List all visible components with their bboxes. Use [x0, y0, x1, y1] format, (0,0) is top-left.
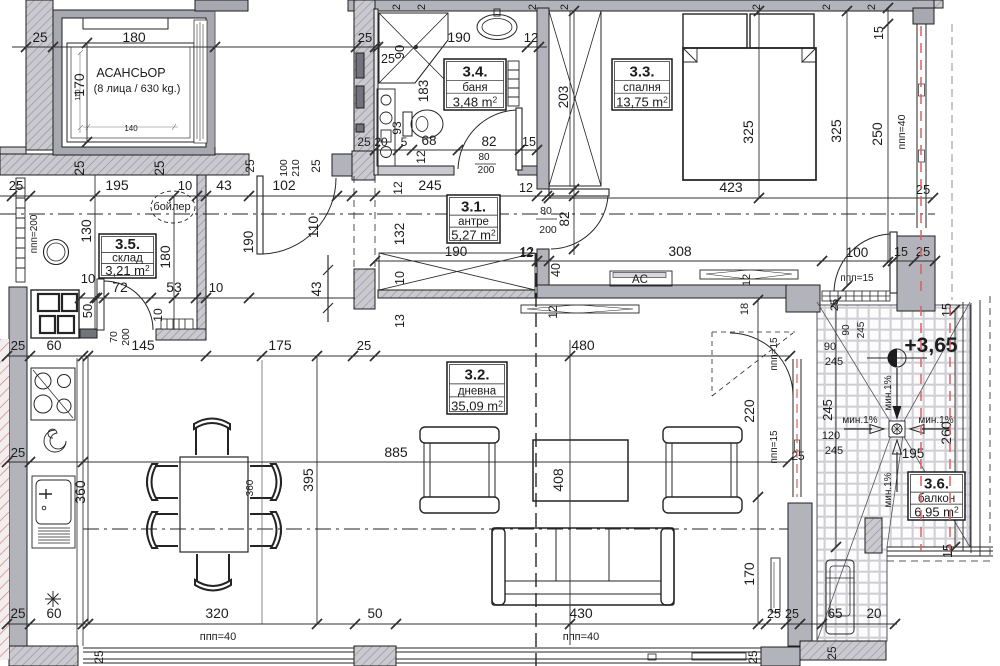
bathroom shower — [379, 13, 448, 83]
svg-text:12: 12 — [414, 150, 428, 164]
svg-text:25: 25 — [92, 650, 106, 664]
svg-text:12: 12 — [741, 274, 753, 286]
svg-text:110: 110 — [75, 89, 82, 100]
svg-text:5,27 m2: 5,27 m2 — [451, 228, 496, 243]
living-balcony window — [793, 359, 801, 497]
svg-text:25: 25 — [791, 449, 805, 463]
svg-text:3.1.: 3.1. — [461, 198, 486, 215]
svg-text:25: 25 — [357, 338, 371, 353]
svg-text:25: 25 — [767, 607, 781, 621]
svg-text:100: 100 — [278, 159, 290, 177]
svg-text:25: 25 — [72, 160, 87, 175]
dim line 220-170 — [753, 295, 763, 629]
svg-text:2: 2 — [866, 4, 878, 10]
bedroom window right — [917, 24, 926, 228]
svg-text:15: 15 — [894, 245, 908, 259]
living low cabinet — [521, 305, 639, 313]
balcony tiled floor — [817, 305, 970, 641]
svg-text:25: 25 — [10, 606, 25, 621]
dim line storage 130 — [90, 175, 100, 330]
antre thin parapet hatched — [378, 290, 535, 298]
bed mattress — [683, 48, 816, 180]
elevator door louver — [194, 20, 207, 143]
overhang dashed line right — [951, 24, 953, 300]
bottom window right — [396, 648, 761, 663]
svg-text:10: 10 — [151, 308, 165, 322]
room label 3.2 дневна — [447, 362, 507, 414]
bathroom-bedroom divider wall upper — [537, 8, 549, 189]
svg-text:AC: AC — [632, 274, 648, 286]
kitchen asterisk — [45, 591, 61, 607]
svg-text:25: 25 — [11, 338, 25, 353]
balcony top pillar — [897, 236, 935, 311]
svg-text:203: 203 — [556, 86, 571, 109]
svg-text:395: 395 — [300, 468, 316, 492]
svg-text:140: 140 — [124, 124, 138, 133]
section line vertical — [535, 253, 537, 666]
dim chain bathroom top — [373, 42, 547, 52]
room label 3.4 баня — [444, 59, 506, 110]
svg-text:245: 245 — [820, 399, 835, 421]
svg-text:2: 2 — [559, 4, 571, 10]
svg-text:90: 90 — [824, 341, 836, 353]
svg-text:20: 20 — [374, 135, 388, 149]
bedroom bottom wall band — [537, 285, 786, 298]
balcony railing right — [887, 300, 993, 556]
svg-text:(8 лица / 630 kg.): (8 лица / 630 kg.) — [94, 83, 181, 95]
dim chain antre — [370, 256, 940, 266]
balcony door threshold — [822, 291, 890, 301]
bedroom wardrobe — [549, 11, 601, 186]
kitchen extractor spiral — [44, 429, 66, 452]
svg-text:430: 430 — [569, 605, 593, 621]
svg-text:12: 12 — [546, 305, 560, 319]
dining chair top — [194, 419, 230, 456]
boiler dashed circle — [151, 191, 195, 223]
shaft dark block 3 — [356, 124, 364, 132]
svg-text:43: 43 — [309, 281, 324, 296]
storage bottom stub hatched — [156, 329, 206, 340]
dim line elevator 170 — [82, 38, 92, 147]
balcony door dashed projection — [712, 332, 795, 396]
svg-text:423: 423 — [719, 179, 743, 195]
bathroom bottom-left strip — [378, 166, 454, 175]
corridor landing line — [214, 11, 216, 147]
svg-text:320: 320 — [205, 605, 229, 621]
bedroom low shelf — [700, 270, 798, 279]
dining chair bottom — [195, 554, 231, 591]
svg-text:13,75 m2: 13,75 m2 — [616, 94, 668, 109]
svg-text:25: 25 — [916, 182, 930, 197]
svg-text:спалня: спалня — [623, 82, 661, 94]
svg-text:50: 50 — [80, 304, 95, 318]
elevator cabin — [67, 43, 194, 142]
svg-text:132: 132 — [392, 223, 407, 246]
balcony AC hatched block — [865, 518, 882, 553]
svg-text:170: 170 — [741, 562, 757, 586]
svg-text:245: 245 — [418, 177, 442, 193]
svg-text:5: 5 — [401, 135, 408, 149]
svg-text:25: 25 — [32, 30, 47, 45]
svg-text:360: 360 — [245, 479, 256, 496]
svg-text:65: 65 — [827, 606, 842, 621]
dim chain living top — [2, 351, 795, 361]
dim line storage 180 — [169, 191, 179, 330]
bedroom door arc — [551, 196, 608, 249]
svg-text:885: 885 — [384, 444, 408, 460]
red dashed line balcony 1 — [920, 306, 922, 552]
svg-text:110: 110 — [305, 216, 321, 239]
AC wall pillar — [788, 503, 812, 646]
bedroom door leaf — [549, 189, 609, 196]
wall left outer hatched — [26, 0, 53, 150]
red dashed line window right — [920, 26, 922, 296]
bathroom door-side wall block — [518, 166, 537, 175]
svg-text:40: 40 — [549, 263, 563, 277]
dim chain storage top — [0, 191, 552, 201]
centerline living horizontal — [83, 528, 788, 530]
living sofa — [492, 528, 674, 605]
left kitchen wall — [9, 287, 27, 646]
balcony door arc — [834, 234, 890, 292]
svg-text:200: 200 — [120, 328, 132, 346]
svg-text:2: 2 — [416, 4, 428, 10]
room label 3.6 балкон — [908, 472, 965, 520]
svg-text:15: 15 — [940, 303, 954, 317]
top band corridor piece — [195, 0, 248, 11]
level symbol +3,65 — [867, 349, 927, 367]
svg-text:245: 245 — [825, 445, 843, 457]
dining chair left1 — [147, 464, 178, 500]
dim chain storage door — [75, 293, 355, 303]
svg-text:2: 2 — [821, 4, 833, 10]
dining chair right1 — [250, 464, 281, 500]
svg-text:12: 12 — [519, 181, 533, 195]
left red hatched strip — [0, 339, 9, 660]
svg-text:180: 180 — [122, 29, 146, 45]
svg-text:70: 70 — [108, 331, 120, 343]
bottom window left — [83, 648, 354, 663]
svg-text:25: 25 — [309, 159, 323, 173]
svg-text:13: 13 — [393, 314, 407, 328]
svg-text:82: 82 — [557, 211, 572, 226]
svg-text:325: 325 — [740, 120, 756, 144]
svg-text:2: 2 — [391, 4, 403, 10]
svg-text:408: 408 — [550, 468, 566, 492]
svg-text:100: 100 — [846, 245, 869, 260]
svg-text:3.5.: 3.5. — [115, 236, 140, 253]
svg-text:360: 360 — [72, 480, 88, 504]
svg-text:мин.1%: мин.1% — [842, 415, 877, 426]
storage door arc — [104, 281, 153, 330]
antre opening dashed lines — [354, 176, 375, 267]
svg-text:25: 25 — [9, 178, 23, 193]
svg-text:ппп=15: ппп=15 — [769, 430, 780, 464]
corridor door-side block — [332, 154, 352, 176]
svg-text:25: 25 — [746, 650, 760, 664]
bathroom sink — [477, 9, 517, 40]
balcony door leaf — [890, 232, 897, 293]
svg-text:80: 80 — [478, 152, 490, 163]
svg-text:308: 308 — [668, 243, 692, 259]
bathroom toilet — [403, 110, 443, 138]
svg-text:245: 245 — [856, 321, 867, 338]
svg-text:ппп=200: ппп=200 — [29, 214, 40, 253]
svg-text:25: 25 — [11, 445, 25, 460]
wall left corner strip — [0, 147, 26, 154]
dim line 203-82 — [569, 6, 579, 255]
top-right hatched bit — [934, 0, 943, 8]
svg-text:10: 10 — [178, 178, 192, 193]
entrance door arc — [263, 178, 336, 254]
svg-text:15: 15 — [941, 544, 955, 558]
dim line bedroom 325 — [842, 6, 852, 291]
svg-text:60: 60 — [46, 338, 61, 353]
svg-text:25: 25 — [825, 646, 839, 660]
svg-text:325: 325 — [828, 119, 844, 143]
dim chain bottom — [2, 619, 900, 629]
svg-text:3,21 m2: 3,21 m2 — [105, 263, 150, 278]
bathroom washing column — [377, 89, 395, 166]
svg-text:ппп=40: ппп=40 — [896, 114, 908, 149]
svg-text:10: 10 — [393, 271, 407, 285]
elevator inner dim lines — [78, 50, 178, 133]
kitchen fridge cabinet block — [31, 290, 79, 338]
svg-text:3.3.: 3.3. — [629, 63, 654, 80]
svg-text:195: 195 — [105, 177, 129, 193]
entrance pillar hatched — [352, 151, 375, 180]
svg-text:15: 15 — [522, 135, 536, 149]
svg-text:15: 15 — [872, 26, 886, 40]
balcony AC outdoor unit — [826, 560, 854, 634]
balcony drain — [889, 421, 905, 437]
balcony slope arrow right — [922, 428, 950, 430]
left window french — [16, 178, 25, 282]
svg-text:ппп=40: ппп=40 — [200, 631, 237, 643]
dim chain bed width — [544, 193, 938, 203]
antre pillar hatched — [354, 269, 375, 309]
dim line 395 — [312, 351, 322, 629]
bathroom-bedroom divider wall lower — [537, 249, 549, 298]
svg-text:мин.1%: мин.1% — [883, 472, 894, 507]
bathroom towel rail — [508, 61, 519, 106]
svg-text:90: 90 — [392, 45, 407, 59]
svg-text:183: 183 — [416, 80, 431, 103]
svg-text:93: 93 — [390, 121, 404, 135]
svg-text:3.2.: 3.2. — [464, 367, 489, 384]
svg-text:25: 25 — [357, 135, 371, 149]
svg-text:200: 200 — [539, 224, 557, 236]
svg-text:102: 102 — [272, 177, 296, 193]
balcony bottom wall hatched — [800, 641, 886, 660]
svg-text:145: 145 — [131, 337, 155, 353]
svg-text:80: 80 — [540, 205, 552, 217]
svg-text:25: 25 — [243, 159, 257, 173]
svg-text:90: 90 — [841, 324, 852, 336]
svg-text:25: 25 — [916, 244, 930, 259]
living coffee table — [533, 440, 628, 501]
storage door leaf — [97, 279, 104, 330]
elevator counterweight — [83, 18, 168, 29]
svg-text:баня: баня — [462, 82, 487, 94]
svg-text:25: 25 — [152, 160, 167, 175]
bed pillows — [683, 14, 747, 48]
svg-text:АСАНСЬОР: АСАНСЬОР — [96, 66, 165, 80]
shaft wall vertical hatched — [354, 0, 375, 151]
storage shoe shelf — [161, 319, 193, 329]
top band main — [348, 0, 934, 11]
svg-text:210: 210 — [290, 159, 302, 177]
balcony slope arrow down — [896, 368, 898, 408]
svg-text:10: 10 — [209, 280, 223, 295]
svg-text:190: 190 — [241, 231, 256, 254]
entrance door leaf — [257, 176, 263, 254]
kitchen sink unit — [32, 476, 75, 548]
svg-text:3.4.: 3.4. — [462, 63, 487, 80]
storage round sink — [44, 240, 69, 265]
svg-text:бойлер: бойлер — [153, 201, 190, 213]
svg-text:43: 43 — [216, 177, 232, 193]
dining dim connector line — [261, 360, 263, 624]
living balcony window arc — [730, 333, 793, 396]
dim chain balcony bottom — [795, 619, 900, 629]
svg-text:175: 175 — [268, 337, 292, 353]
indoor AC unit — [771, 558, 780, 612]
top-right pillar — [913, 8, 934, 24]
svg-text:25: 25 — [785, 607, 799, 621]
svg-text:ппп=15: ппп=15 — [769, 337, 780, 371]
svg-text:68: 68 — [421, 133, 436, 148]
antre wardrobe — [379, 253, 535, 290]
red dashed line living window — [796, 359, 798, 497]
dim line 43 pillar — [323, 255, 333, 322]
svg-text:ппп=40: ппп=40 — [563, 631, 600, 643]
balcony slope arrow up — [896, 452, 898, 492]
red dashed line balcony 2 — [949, 306, 951, 552]
svg-text:50: 50 — [367, 606, 382, 621]
balcony diagonals to drain — [817, 302, 970, 641]
svg-text:35,09 m2: 35,09 m2 — [451, 398, 503, 413]
bottom pillar hatched — [354, 646, 396, 666]
svg-text:18: 18 — [739, 303, 751, 315]
svg-text:190: 190 — [445, 244, 468, 259]
svg-text:245: 245 — [825, 356, 843, 368]
svg-text:антре: антре — [458, 216, 489, 228]
svg-text:12: 12 — [524, 30, 538, 45]
svg-text:260: 260 — [938, 421, 954, 445]
wall band below elevator hatched — [0, 154, 249, 175]
bedroom AC unit — [610, 271, 672, 286]
balcony slope arrow left — [844, 428, 872, 430]
svg-text:25: 25 — [829, 299, 841, 311]
bathroom door arc — [458, 110, 516, 169]
dim chain bathroom bottom — [370, 145, 542, 155]
bathroom door leaf — [516, 108, 522, 170]
svg-text:12: 12 — [519, 246, 533, 260]
dim line balcony 245 — [831, 297, 841, 552]
svg-text:82: 82 — [481, 134, 496, 149]
svg-text:480: 480 — [571, 337, 595, 353]
dim chain top — [12, 42, 380, 52]
dining chair right2 — [250, 512, 281, 548]
shaft dark block 2 — [356, 86, 364, 108]
room label 3.5 склад — [99, 234, 156, 278]
storage right wall hatched — [197, 175, 206, 340]
room label 3.1 антре — [447, 195, 500, 243]
elevator shaft wall — [53, 10, 215, 155]
svg-text:53: 53 — [166, 279, 182, 295]
svg-text:25: 25 — [358, 30, 372, 45]
centerline horizontal — [0, 213, 935, 215]
svg-text:190: 190 — [447, 29, 471, 45]
svg-text:60: 60 — [46, 606, 61, 621]
dim line balcony 260 — [950, 305, 960, 552]
storage door-side dark block — [80, 329, 97, 338]
svg-text:220: 220 — [741, 399, 757, 423]
svg-text:3,48 m2: 3,48 m2 — [453, 94, 498, 109]
svg-text:120: 120 — [822, 430, 840, 442]
svg-text:20: 20 — [866, 606, 881, 621]
dining table — [180, 457, 248, 552]
dim line 360 — [83, 351, 93, 629]
living armchair right — [663, 427, 742, 513]
svg-text:180: 180 — [157, 245, 173, 269]
living armchair left — [420, 427, 499, 513]
svg-text:2: 2 — [751, 4, 763, 10]
svg-text:10: 10 — [81, 271, 95, 286]
svg-text:мин.1%: мин.1% — [883, 375, 894, 410]
room label 3.3 спалня — [612, 59, 672, 110]
dim line bed 325 — [754, 6, 764, 203]
kitchen stove — [31, 368, 75, 420]
bedroom bottom wall right block — [786, 285, 820, 312]
bathroom left thin wall — [374, 9, 378, 175]
shaft dark block 1 — [356, 53, 364, 78]
svg-text:12: 12 — [391, 181, 405, 195]
svg-text:130: 130 — [78, 219, 94, 243]
dining chair left2 — [147, 512, 178, 548]
kitchen counter front edge — [77, 358, 83, 646]
svg-text:дневна: дневна — [458, 386, 497, 398]
bottom right wall piece — [761, 647, 800, 666]
svg-text:72: 72 — [112, 279, 128, 295]
dim chain living mid — [2, 457, 793, 467]
bottom-left corner hatched — [9, 646, 78, 666]
dim line 408 — [565, 340, 575, 645]
svg-text:ппп=15: ппп=15 — [840, 273, 874, 284]
svg-text:250: 250 — [869, 122, 885, 146]
svg-text:3.6.: 3.6. — [924, 475, 949, 492]
svg-text:2: 2 — [527, 4, 539, 10]
svg-text:200: 200 — [478, 165, 495, 176]
dim line bedroom 250 — [883, 3, 893, 267]
